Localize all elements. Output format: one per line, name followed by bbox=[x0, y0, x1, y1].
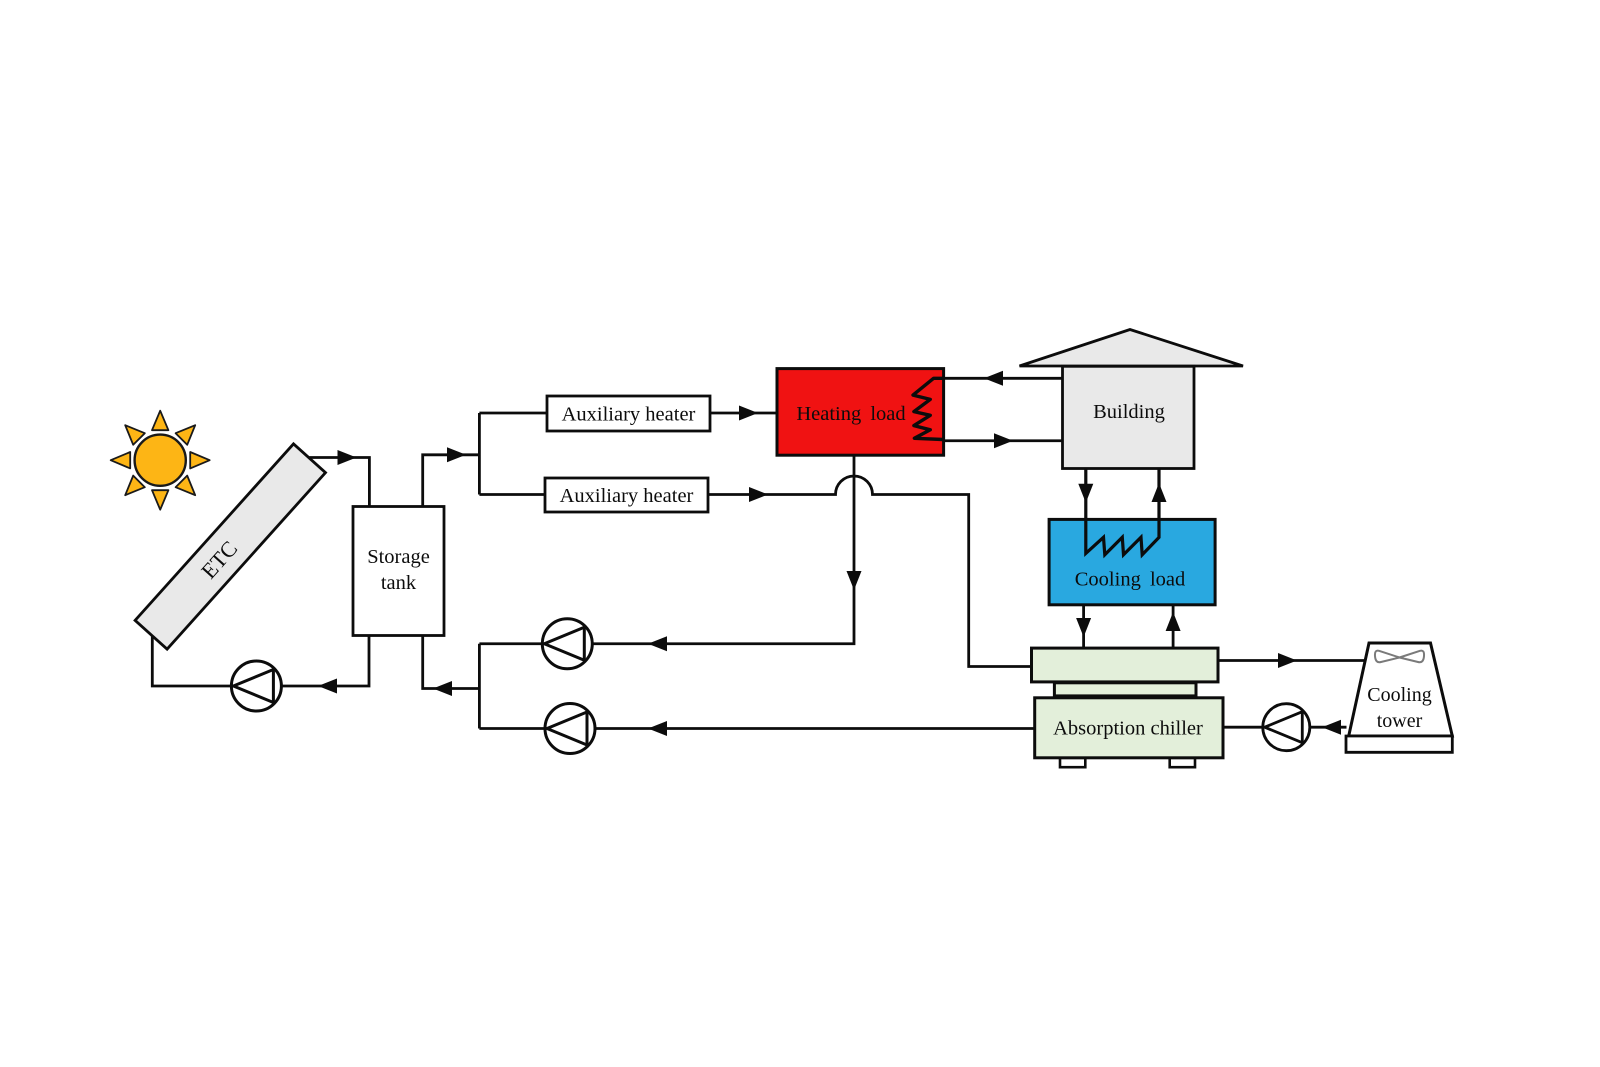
cooling tower base skirt bbox=[1346, 736, 1452, 752]
ETC collector panel bbox=[135, 444, 325, 649]
wire solar loop bottom bbox=[152, 636, 369, 687]
wire auxiliary heater 2 to absorption chiller (with hop) bbox=[708, 476, 1032, 666]
cooling tower body bbox=[1349, 643, 1453, 736]
svg-text:Auxiliary heater: Auxiliary heater bbox=[562, 404, 696, 426]
wire cooling load to chiller (down) bbox=[1082, 605, 1085, 648]
wire ETC to storage tank top-left bbox=[309, 458, 369, 507]
svg-text:tower: tower bbox=[1377, 710, 1423, 732]
pump P2 heating loop bbox=[542, 619, 592, 669]
svg-text:Building: Building bbox=[1093, 401, 1165, 423]
wire chiller top to cooling tower bbox=[1218, 659, 1364, 662]
wire auxiliary heater 1 to heating load bbox=[710, 412, 777, 415]
absorption chiller main body bbox=[1035, 698, 1223, 758]
heating coil zigzag bbox=[913, 378, 943, 439]
absorption chiller middle section bbox=[1054, 683, 1196, 696]
cooling load box bbox=[1049, 519, 1215, 604]
pump P4 cooling water loop bbox=[1263, 704, 1310, 751]
pump P3 chilled water loop bbox=[545, 704, 595, 754]
svg-text:Cooling load: Cooling load bbox=[1075, 569, 1185, 591]
storage tank bbox=[353, 507, 444, 636]
svg-text:Absorption chiller: Absorption chiller bbox=[1053, 718, 1203, 740]
svg-text:Heating load: Heating load bbox=[796, 403, 905, 425]
wire junction to auxiliary heater 2 bbox=[479, 493, 545, 496]
auxiliary heater 2 bbox=[545, 478, 708, 512]
absorption chiller feet bbox=[1060, 758, 1085, 767]
auxiliary heater 1 bbox=[547, 396, 710, 431]
sun bbox=[111, 411, 210, 510]
pump P1 solar loop bbox=[231, 661, 281, 711]
wire junction to auxiliary heater 1 bbox=[479, 412, 547, 415]
heating load box bbox=[777, 369, 944, 456]
svg-text:tank: tank bbox=[381, 572, 417, 594]
absorption chiller top section bbox=[1032, 648, 1219, 682]
wire chiller to pump 3 line bbox=[479, 727, 1034, 730]
wire building to heating load (top return) bbox=[944, 377, 1063, 380]
wire chiller to cooling load (up) bbox=[1172, 605, 1175, 648]
wire building down into cooling load + cooling coil zigzag + wire up to building bbox=[1086, 469, 1159, 555]
wire return to tank bottom-right bbox=[423, 636, 480, 689]
cooling tower fan bbox=[1375, 651, 1424, 663]
svg-text:Auxiliary heater: Auxiliary heater bbox=[560, 485, 694, 507]
svg-text:Storage: Storage bbox=[367, 546, 430, 568]
wire heating load bottom to pump line bbox=[479, 455, 854, 644]
wire junction vertical bbox=[478, 644, 481, 729]
building box bbox=[1063, 366, 1195, 468]
svg-text:Cooling: Cooling bbox=[1367, 684, 1431, 706]
wire tank top-right to junction bbox=[423, 413, 480, 507]
wire cooling tower to pump 4 to chiller bbox=[1223, 726, 1347, 729]
wire heating load to building (supply) bbox=[944, 439, 1063, 442]
building roof bbox=[1020, 330, 1244, 367]
